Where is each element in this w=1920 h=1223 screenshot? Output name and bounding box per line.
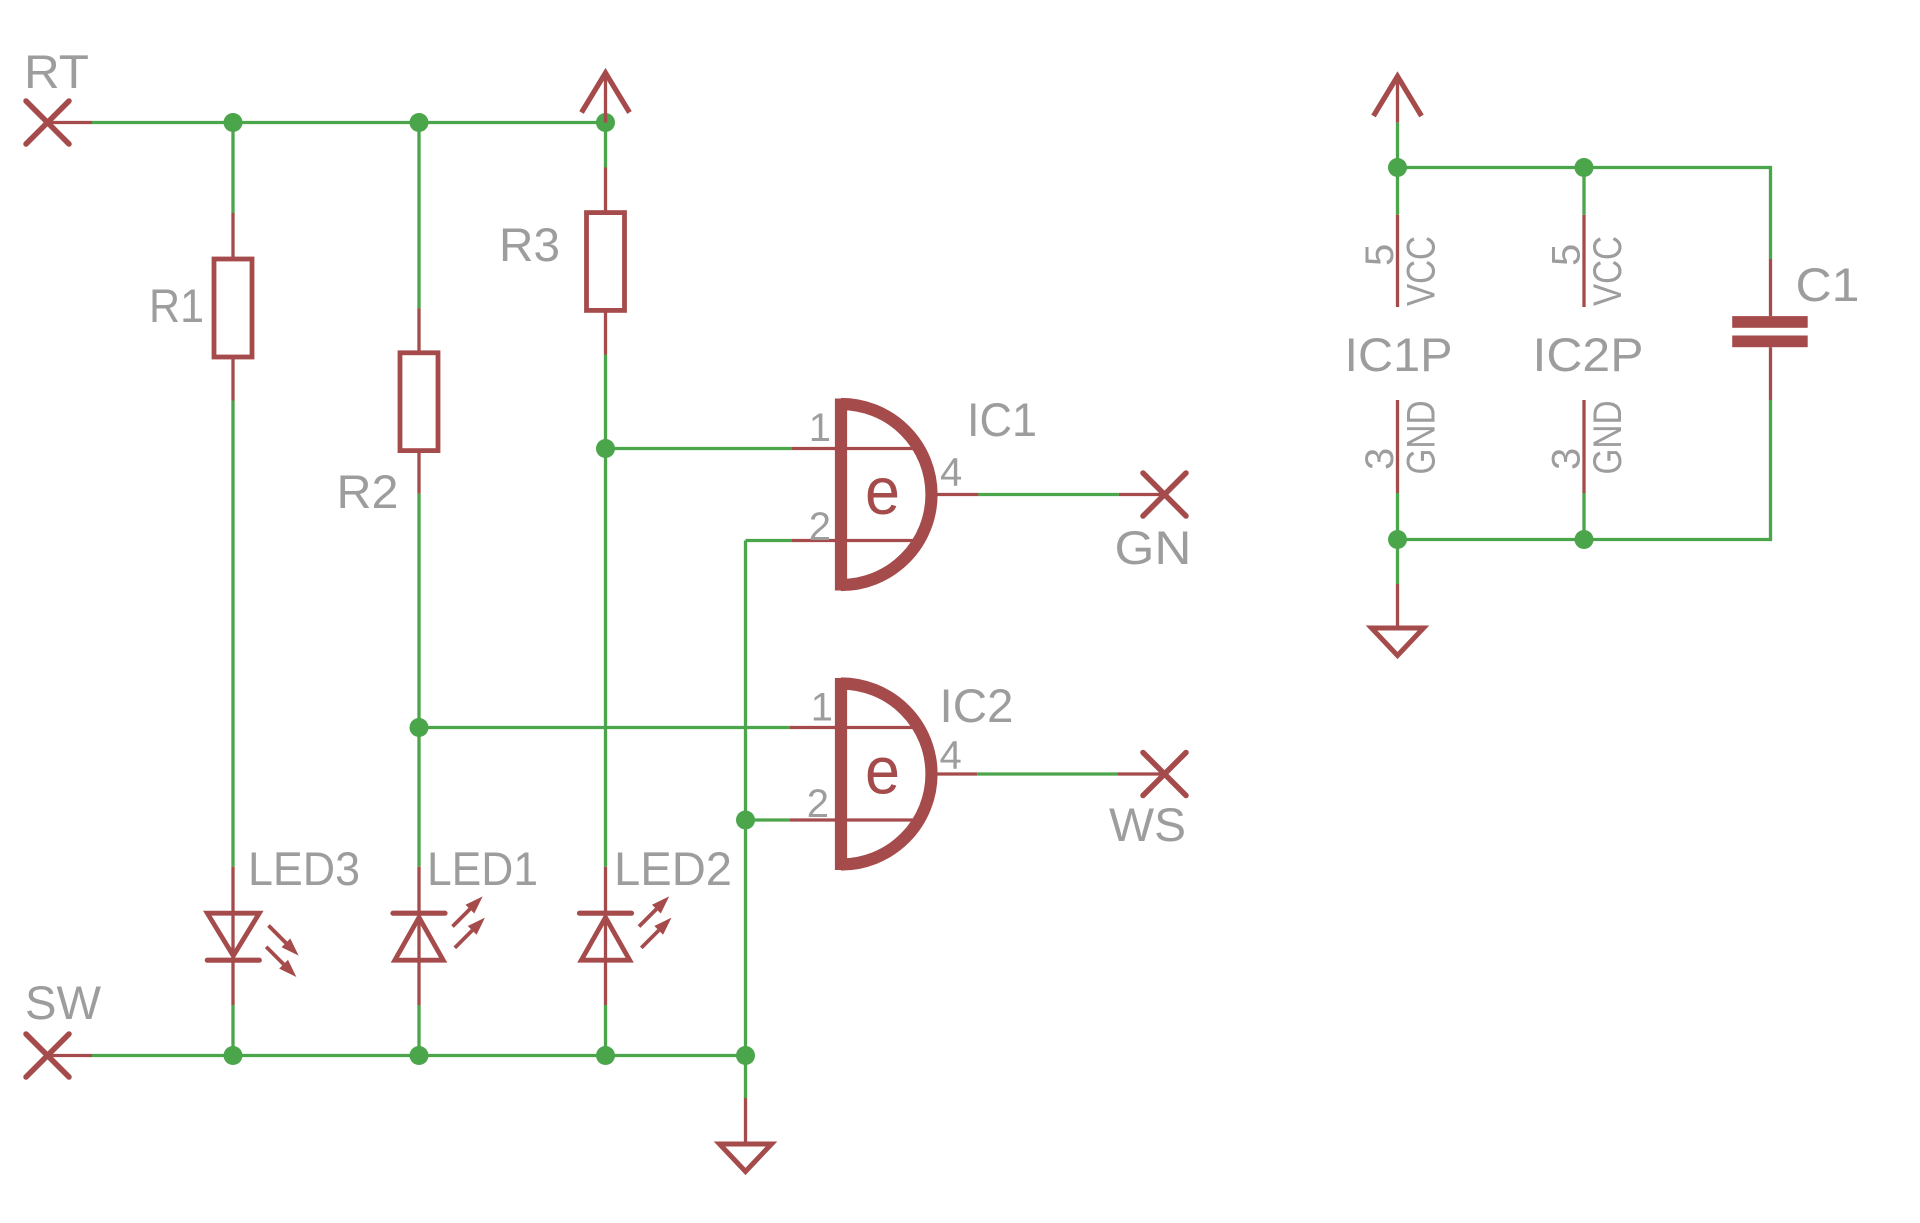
svg-text:2: 2 xyxy=(807,782,829,826)
LED3 cathode bar xyxy=(207,958,259,963)
IC2P GND net stub xyxy=(1582,493,1585,540)
node junction (1397.5,167.5) xyxy=(1388,158,1407,177)
svg-text:e: e xyxy=(865,734,900,809)
supply VCC arrow right xyxy=(1374,76,1422,122)
LED2 anode bar xyxy=(580,911,632,916)
wire col1 upper xyxy=(231,123,234,214)
wire IC1 pin2 net vertical x745.5 xyxy=(744,541,747,1099)
svg-text:IC1: IC1 xyxy=(967,393,1037,446)
IC2P pin GND xyxy=(1582,400,1585,493)
resistor R3 pin bottom xyxy=(604,310,607,354)
svg-text:WS: WS xyxy=(1109,798,1186,851)
IC2 pin 1 line xyxy=(790,726,920,729)
svg-text:R3: R3 xyxy=(499,218,560,271)
wire col1 middle xyxy=(231,401,234,867)
svg-text:R1: R1 xyxy=(149,279,204,332)
wire net RT top horizontal xyxy=(92,121,606,124)
LED2 pin line xyxy=(604,867,607,1005)
svg-text:1: 1 xyxy=(811,686,833,730)
C1 plate bottom xyxy=(1732,336,1808,348)
op-amp gate IC1 xyxy=(792,393,1037,591)
wire col2 upper xyxy=(417,123,420,309)
wire col2 bottom stub xyxy=(417,1005,420,1056)
pin WS stub xyxy=(1117,772,1164,775)
LED3 pin line xyxy=(231,867,234,1005)
wire WS net xyxy=(977,772,1117,775)
diode LED3 xyxy=(207,842,360,1005)
C1 lead bottom xyxy=(1769,347,1772,400)
IC1 body xyxy=(841,399,932,591)
pin SW cross xyxy=(26,1034,69,1077)
resistor R1 xyxy=(214,259,252,357)
node junction (605.5,1055.5) xyxy=(596,1046,615,1065)
wire GN net xyxy=(978,493,1118,496)
node junction (233,122.5) xyxy=(224,113,243,132)
wire col3 upper stub xyxy=(604,123,607,168)
LED1 triangle xyxy=(395,917,443,960)
wire VCC right stub xyxy=(1396,123,1399,168)
supply VCC arrow left xyxy=(582,73,630,123)
svg-text:R2: R2 xyxy=(337,465,399,518)
IC2P pin VCC xyxy=(1582,215,1585,307)
wire right bottom horizontal xyxy=(1398,538,1771,541)
svg-text:4: 4 xyxy=(940,734,962,778)
diode LED2 xyxy=(580,842,733,1005)
ground symbol right xyxy=(1372,584,1424,656)
IC2 pin 4 line xyxy=(932,772,977,775)
wire C1 column bottom xyxy=(1769,400,1772,541)
node junction (233,1055.5) xyxy=(224,1046,243,1065)
node junction (419,727.5) xyxy=(410,718,429,737)
LED1 arrow 2 xyxy=(455,920,483,948)
svg-text:4: 4 xyxy=(940,451,962,495)
pin GN cross xyxy=(1143,473,1186,516)
node junction (419,122.5) xyxy=(410,113,429,132)
pin RT stub xyxy=(48,121,93,124)
IC1P pin VCC xyxy=(1396,215,1399,307)
svg-text:5: 5 xyxy=(1545,244,1589,266)
resistor R2 pin top xyxy=(417,308,420,353)
C1 plate top xyxy=(1732,316,1808,328)
svg-text:IC2P: IC2P xyxy=(1533,328,1644,381)
svg-text:2: 2 xyxy=(809,505,831,549)
LED3 arrow 1 xyxy=(269,926,297,954)
LED2 arrow 2 xyxy=(641,920,669,948)
svg-text:3: 3 xyxy=(1358,448,1402,470)
pin GN stub xyxy=(1119,493,1165,496)
resistor R2 xyxy=(400,353,438,451)
svg-text:C1: C1 xyxy=(1796,258,1860,311)
wire IC1 pin2 net horizontal xyxy=(746,539,793,542)
pin RT cross xyxy=(26,101,69,144)
svg-text:IC2: IC2 xyxy=(940,679,1014,732)
wire col1 bottom stub xyxy=(231,1005,234,1056)
node junction (605.5,448.5) xyxy=(596,439,615,458)
op-amp gate IC2 xyxy=(790,678,1014,870)
wire right ground stub xyxy=(1396,540,1399,585)
wire col3 bottom stub xyxy=(604,1005,607,1056)
LED3 arrow 2 xyxy=(266,947,294,975)
IC2P power symbol xyxy=(1533,168,1644,540)
node junction (605.5,122.5) xyxy=(596,113,615,132)
svg-text:VCC: VCC xyxy=(1400,236,1444,306)
svg-text:1: 1 xyxy=(809,406,831,450)
wire col2 middle xyxy=(417,494,420,867)
wire net SW bottom horizontal xyxy=(92,1054,746,1057)
capacitor C1 xyxy=(1732,258,1859,400)
resistor R3 pin top xyxy=(604,168,607,213)
C1 lead top xyxy=(1769,259,1772,316)
diode LED1 xyxy=(393,842,538,1005)
wire right top horizontal xyxy=(1398,166,1771,169)
node junction (1584,539.5) xyxy=(1575,530,1594,549)
LED1 arrow 1 xyxy=(453,899,481,927)
IC2P VCC net stub xyxy=(1582,168,1585,215)
pin SW stub xyxy=(48,1054,93,1057)
IC2 pin 2 line xyxy=(790,818,920,821)
resistor R3 xyxy=(587,213,625,311)
IC1 pin 1 line xyxy=(792,447,920,450)
node junction (1584,167.5) xyxy=(1575,158,1594,177)
IC2 body xyxy=(841,678,932,870)
ground symbol bottom xyxy=(720,1098,772,1172)
resistor R1 pin top xyxy=(231,213,234,259)
IC1P GND net stub xyxy=(1396,493,1399,540)
svg-text:SW: SW xyxy=(25,976,102,1029)
IC1P VCC net stub xyxy=(1396,168,1399,215)
svg-text:LED2: LED2 xyxy=(614,842,732,895)
IC1 pin 2 line xyxy=(792,539,920,542)
svg-text:LED3: LED3 xyxy=(248,842,360,895)
resistor R1 pin bottom xyxy=(231,357,234,401)
LED3 triangle xyxy=(207,913,259,956)
node junction (419,1055.5) xyxy=(410,1046,429,1065)
svg-text:LED1: LED1 xyxy=(427,842,538,895)
node junction (1397.5,539.5) xyxy=(1388,530,1407,549)
svg-text:GND: GND xyxy=(1586,401,1630,475)
svg-text:RT: RT xyxy=(24,45,89,98)
svg-text:5: 5 xyxy=(1358,244,1402,266)
LED2 arrow 1 xyxy=(639,899,667,927)
resistor R2 pin bottom xyxy=(417,451,420,494)
svg-text:GND: GND xyxy=(1400,401,1444,475)
IC1P power symbol xyxy=(1345,168,1453,540)
LED1 pin line xyxy=(417,867,420,1005)
svg-text:GN: GN xyxy=(1115,521,1192,574)
wire col3 middle xyxy=(604,355,607,867)
svg-text:3: 3 xyxy=(1545,448,1589,470)
node junction (745.5,820) xyxy=(736,811,755,830)
svg-text:IC1P: IC1P xyxy=(1345,328,1453,381)
LED1 anode bar xyxy=(393,911,445,916)
wire IC1 pin1 net xyxy=(606,447,793,450)
IC1P pin GND xyxy=(1396,400,1399,493)
wire IC2 pin1 net xyxy=(419,726,790,729)
IC1 pin 4 line xyxy=(932,493,978,496)
svg-text:e: e xyxy=(865,454,900,529)
svg-text:VCC: VCC xyxy=(1586,236,1630,306)
pin WS cross xyxy=(1143,753,1186,796)
node junction (745.5,1055.5) xyxy=(736,1046,755,1065)
wire IC2 pin2 net horizontal xyxy=(746,818,791,821)
LED2 triangle xyxy=(581,917,629,960)
wire C1 column top xyxy=(1769,166,1772,259)
